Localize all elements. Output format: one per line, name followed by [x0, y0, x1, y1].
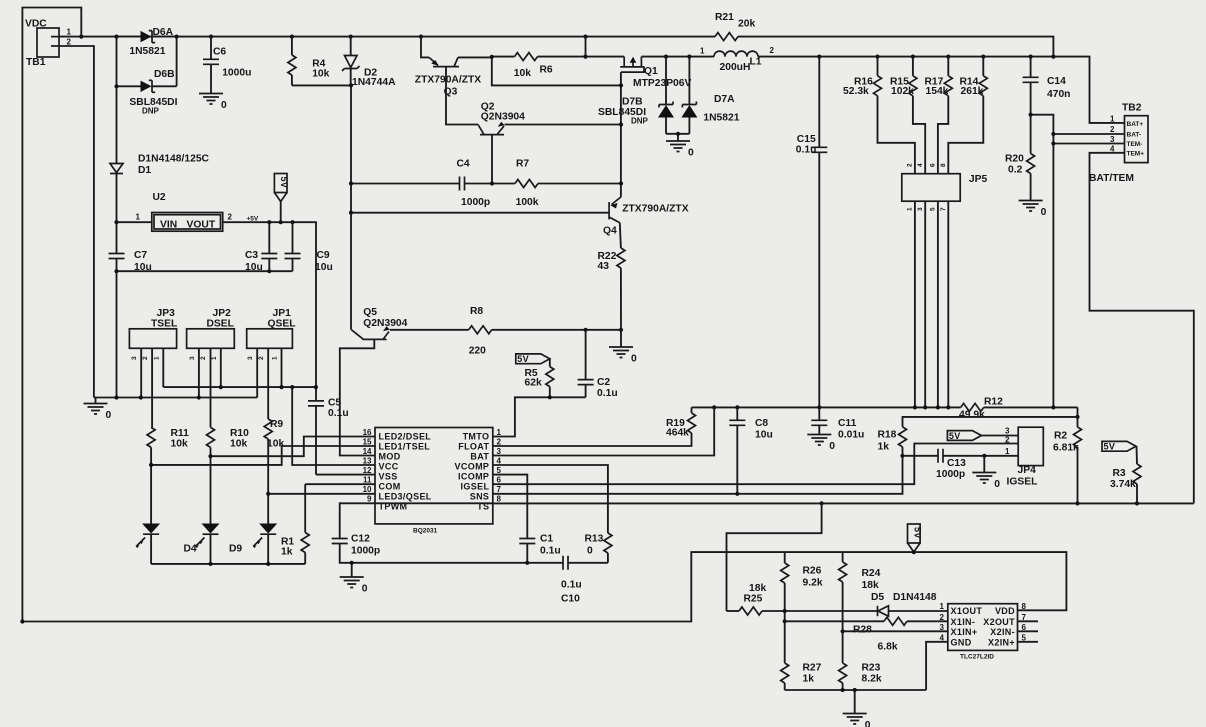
svg-text:4: 4 — [497, 456, 502, 465]
svg-text:200uH: 200uH — [720, 62, 751, 73]
svg-text:R8: R8 — [470, 306, 483, 317]
svg-text:Q2N3904: Q2N3904 — [363, 318, 407, 329]
resistor R26 9.2k — [781, 552, 823, 663]
capacitor C10 0.1u — [527, 556, 608, 605]
svg-text:7: 7 — [497, 485, 502, 494]
svg-text:SNS: SNS — [470, 492, 490, 502]
resistor R16 52.3k — [843, 57, 915, 174]
svg-text:DNP: DNP — [631, 117, 649, 126]
wire VSS pin12 — [316, 474, 375, 476]
svg-text:VIN: VIN — [160, 220, 177, 231]
svg-text:2: 2 — [1005, 436, 1010, 445]
svg-text:D1N4148: D1N4148 — [893, 592, 937, 603]
svg-text:C15: C15 — [797, 134, 816, 145]
power flag 5V (above U2 output) — [274, 174, 289, 223]
svg-text:C10: C10 — [561, 594, 580, 605]
wire D6 anode vertical / node — [116, 37, 118, 163]
capacitor C12 1000p — [332, 503, 528, 563]
wire Q4 base line — [351, 212, 609, 214]
svg-text:+5V: +5V — [247, 216, 259, 223]
svg-text:261k: 261k — [961, 86, 984, 97]
svg-text:VCOMP: VCOMP — [455, 462, 490, 472]
wire COM pin11 line — [305, 483, 375, 485]
svg-text:MOD: MOD — [379, 452, 401, 462]
svg-text:3: 3 — [131, 356, 138, 360]
wire Q3 collector node vertical / gate drive — [492, 57, 621, 85]
svg-text:3: 3 — [1005, 427, 1010, 436]
svg-text:1: 1 — [700, 47, 705, 56]
wire JP3 pins — [141, 348, 163, 427]
wire MOD pin14 to Q5 base — [340, 339, 375, 455]
svg-text:X1IN+: X1IN+ — [951, 627, 978, 637]
svg-text:2: 2 — [940, 613, 945, 622]
zener D2 1N4744A — [342, 37, 396, 88]
svg-text:10k: 10k — [312, 69, 329, 80]
wire bottom ground rail — [785, 689, 926, 691]
ground (op-amp) — [843, 690, 871, 727]
svg-text:VSS: VSS — [379, 472, 398, 482]
power flag 5V (R5) — [516, 354, 550, 364]
resistor R9 10k — [264, 419, 284, 524]
svg-text:1N4744A: 1N4744A — [352, 77, 396, 88]
wire Q2 base to C4/R7 line — [491, 135, 493, 184]
svg-text:1: 1 — [136, 213, 141, 222]
svg-text:D1: D1 — [138, 165, 151, 176]
diode D5 D1N4148 — [762, 592, 948, 616]
svg-text:10u: 10u — [315, 262, 333, 273]
svg-text:IGSEL: IGSEL — [461, 482, 490, 492]
svg-text:2: 2 — [770, 46, 775, 55]
svg-text:C3: C3 — [245, 250, 258, 261]
capacitor C9 10u — [285, 222, 333, 273]
svg-text:TEM-: TEM- — [1127, 141, 1143, 148]
svg-text:C11: C11 — [838, 418, 857, 429]
svg-text:8: 8 — [497, 495, 502, 504]
svg-text:1N5821: 1N5821 — [703, 113, 739, 124]
svg-text:R26: R26 — [803, 566, 822, 577]
svg-text:52.3k: 52.3k — [843, 86, 869, 97]
svg-text:R13: R13 — [585, 534, 604, 545]
op-amp U3 TLC27L2ID — [940, 602, 1027, 661]
resistor R27 1k — [781, 663, 822, 691]
svg-text:C1: C1 — [540, 534, 553, 545]
capacitor C11 0.01u — [811, 407, 864, 440]
power flag 5V (JP4 pin3) — [947, 431, 1018, 441]
svg-text:D6A: D6A — [153, 27, 174, 38]
svg-text:15: 15 — [363, 437, 372, 446]
diode D7A 1N5821 (catch diode) — [681, 57, 739, 134]
svg-text:4: 4 — [1110, 145, 1115, 154]
svg-text:D6B: D6B — [154, 69, 175, 80]
svg-text:62k: 62k — [525, 378, 542, 389]
wire U2 pin1 — [117, 221, 152, 223]
svg-text:C12: C12 — [351, 534, 370, 545]
svg-text:R24: R24 — [862, 568, 881, 579]
svg-text:JP4: JP4 — [1018, 465, 1037, 476]
wire TEM+ from TB2 pin4 down right side — [1090, 153, 1194, 504]
svg-text:2: 2 — [228, 213, 233, 222]
svg-text:1000u: 1000u — [222, 68, 251, 79]
ground (C13) — [972, 456, 1000, 490]
svg-text:1k: 1k — [878, 442, 890, 453]
svg-text:COM: COM — [379, 482, 401, 492]
svg-text:10k: 10k — [267, 439, 284, 450]
wire R9/LED3 node to pin10 — [268, 493, 375, 495]
svg-text:43: 43 — [598, 261, 610, 272]
svg-text:C2: C2 — [597, 377, 610, 388]
svg-text:R12: R12 — [984, 397, 1003, 408]
svg-text:C13: C13 — [947, 458, 966, 469]
svg-text:100k: 100k — [516, 197, 539, 208]
wire LED cathode rail — [151, 563, 305, 565]
svg-text:1: 1 — [1110, 115, 1115, 124]
wire R4 bottom to D2 — [292, 84, 351, 86]
LED D4 — [136, 524, 197, 564]
resistor R13 0 — [493, 465, 612, 563]
svg-text:3: 3 — [940, 623, 945, 632]
wire JP5 bottom pins to BAT rail — [915, 201, 948, 407]
svg-text:X2IN+: X2IN+ — [988, 637, 1015, 647]
svg-text:R3: R3 — [1113, 468, 1126, 479]
svg-text:D7A: D7A — [714, 94, 735, 105]
capacitor C7 10u — [109, 222, 152, 397]
svg-text:1: 1 — [940, 602, 945, 611]
wire switch node rail — [641, 56, 714, 58]
transistor Q5 Q2N3904 (NPN) — [352, 307, 408, 339]
svg-text:12: 12 — [363, 466, 372, 475]
svg-text:R25: R25 — [744, 594, 763, 605]
wire Q1 gate lead down (drive node) — [620, 72, 622, 197]
capacitor C13 1000p — [903, 449, 1019, 480]
svg-text:220: 220 — [469, 346, 486, 357]
svg-text:4: 4 — [940, 634, 945, 643]
svg-text:BQ2031: BQ2031 — [413, 528, 438, 535]
svg-text:C7: C7 — [134, 250, 147, 261]
svg-text:MTP23P06V: MTP23P06V — [633, 78, 692, 89]
svg-text:0.1u: 0.1u — [540, 546, 561, 557]
svg-text:2: 2 — [258, 356, 265, 360]
svg-text:18k: 18k — [862, 580, 879, 591]
svg-text:154k: 154k — [926, 86, 949, 97]
svg-text:18k: 18k — [749, 583, 766, 594]
svg-text:1: 1 — [272, 356, 279, 360]
regulator U2 VIN/VOUT — [136, 192, 233, 231]
svg-text:2: 2 — [907, 163, 914, 167]
connector JP5 — [902, 163, 988, 211]
inductor L1 200uH — [700, 46, 775, 73]
resistor R25 18k — [727, 583, 767, 615]
svg-text:9.2k: 9.2k — [803, 578, 823, 589]
svg-text:3: 3 — [917, 207, 924, 211]
wire Q5 emitter / R8 line — [390, 329, 469, 331]
svg-text:LED3/QSEL: LED3/QSEL — [379, 492, 432, 502]
svg-text:3.74k: 3.74k — [1110, 479, 1136, 490]
ground (jumper rail) — [84, 398, 112, 422]
diode D6B SBL845DI DNP — [117, 69, 178, 116]
svg-text:16: 16 — [363, 428, 372, 437]
ground (R20) — [1019, 201, 1047, 219]
svg-text:R10: R10 — [230, 428, 249, 439]
svg-text:4: 4 — [917, 163, 924, 167]
svg-text:R28: R28 — [853, 625, 872, 636]
svg-text:FLOAT: FLOAT — [458, 442, 489, 452]
svg-text:5: 5 — [930, 207, 937, 211]
resistor R24 18k — [839, 552, 881, 663]
capacitor C4 1000p — [457, 159, 493, 209]
svg-text:6: 6 — [497, 476, 502, 485]
svg-text:14: 14 — [363, 447, 372, 456]
svg-text:8.2k: 8.2k — [862, 674, 882, 685]
svg-text:2: 2 — [200, 356, 207, 360]
resistor R8 220 — [469, 306, 621, 357]
svg-text:D5: D5 — [871, 592, 884, 603]
capacitor C6 1000u — [203, 37, 251, 94]
ground (C12 rail) — [340, 561, 368, 595]
svg-text:1: 1 — [907, 207, 914, 211]
connector TB2 BAT/TEM — [1089, 103, 1148, 185]
svg-text:10k: 10k — [514, 68, 531, 79]
svg-text:BAT/TEM: BAT/TEM — [1089, 173, 1134, 184]
wire opamp pin3 line — [843, 630, 948, 632]
wire VCC drop to pin13 — [292, 387, 375, 465]
svg-text:13: 13 — [363, 456, 372, 465]
svg-text:10k: 10k — [230, 439, 247, 450]
svg-text:464k: 464k — [666, 428, 689, 439]
resistor R15 102k — [890, 57, 925, 174]
svg-text:L1: L1 — [750, 57, 762, 68]
svg-text:10u: 10u — [755, 430, 773, 441]
svg-text:ZTX790A/ZTX: ZTX790A/ZTX — [622, 204, 689, 215]
transistor Q2 Q2N3904 (NPN) — [478, 102, 525, 135]
wire Q3 base down to Q2 — [446, 67, 478, 125]
svg-text:QSEL: QSEL — [268, 319, 296, 330]
resistor R28 6.8k — [785, 617, 948, 652]
svg-text:1: 1 — [1005, 447, 1010, 456]
ground (R8/R22 node) — [609, 330, 637, 365]
svg-text:TB1: TB1 — [26, 57, 46, 68]
IC U1 BQ2031 — [363, 428, 502, 535]
jumper JP2 DSEL — [187, 308, 235, 360]
wire R6 right riser to rail — [585, 37, 587, 57]
transistor Q1 MTP23P06V (P-MOSFET) — [620, 57, 691, 89]
svg-text:C14: C14 — [1047, 76, 1066, 87]
capacitor C14 470n — [1023, 57, 1071, 154]
svg-text:LED2/DSEL: LED2/DSEL — [379, 432, 432, 442]
wire bottom return (left rail to 5V rail) — [22, 552, 1066, 621]
svg-text:1000p: 1000p — [351, 546, 380, 557]
wire jumper ground rail — [94, 397, 257, 399]
diode D7B SBL845DI DNP (catch diode) — [598, 57, 674, 134]
svg-text:1N5821: 1N5821 — [129, 46, 165, 57]
svg-text:2: 2 — [1110, 125, 1115, 134]
svg-text:8: 8 — [940, 163, 947, 167]
resistor R12 49.9k (in BAT rail) — [959, 397, 1078, 421]
svg-text:R20: R20 — [1005, 154, 1024, 165]
svg-text:470n: 470n — [1047, 89, 1070, 100]
svg-text:0.2: 0.2 — [1008, 165, 1023, 176]
resistor R3 3.74k — [1110, 464, 1141, 503]
svg-text:1000p: 1000p — [461, 197, 490, 208]
resistor R21 20k (in top rail) — [715, 12, 755, 41]
svg-text:R7: R7 — [516, 159, 529, 170]
svg-text:20k: 20k — [738, 19, 755, 30]
resistor R11 10k — [147, 427, 189, 523]
svg-text:DNP: DNP — [142, 107, 160, 116]
svg-text:3: 3 — [189, 356, 196, 360]
wire opamp unused stubs — [1018, 621, 1039, 642]
svg-text:11: 11 — [363, 476, 372, 485]
LED D3 (QSEL) — [253, 524, 277, 564]
svg-text:GND: GND — [951, 637, 972, 647]
transistor Q4 ZTX790A/ZTX (PNP) — [603, 197, 689, 248]
svg-text:10k: 10k — [171, 439, 188, 450]
svg-text:6.8k: 6.8k — [878, 642, 898, 653]
svg-text:TMTO: TMTO — [463, 432, 490, 442]
capacitor C3 10u — [245, 222, 277, 273]
svg-text:VCC: VCC — [379, 462, 399, 472]
wire 5V select line (jumper pin1s) — [163, 386, 316, 388]
svg-text:2: 2 — [497, 437, 502, 446]
svg-text:BAT-: BAT- — [1127, 131, 1142, 138]
svg-text:VDD: VDD — [995, 606, 1015, 616]
svg-text:X1IN-: X1IN- — [951, 617, 976, 627]
svg-text:R9: R9 — [270, 419, 283, 430]
svg-text:1: 1 — [211, 356, 218, 360]
resistor R5 62k — [525, 359, 554, 398]
svg-text:IGSEL: IGSEL — [1007, 477, 1038, 488]
svg-text:TEM+: TEM+ — [1127, 151, 1145, 158]
svg-text:TB2: TB2 — [1122, 103, 1142, 114]
svg-text:5: 5 — [497, 466, 502, 475]
svg-text:2: 2 — [142, 356, 149, 360]
svg-text:R27: R27 — [803, 663, 822, 674]
wire IGSEL pin6 to JP4 pin2 — [493, 444, 1018, 485]
svg-text:U2: U2 — [153, 192, 166, 203]
capacitor C2 0.1u — [578, 330, 618, 399]
svg-text:JP5: JP5 — [969, 174, 988, 185]
svg-text:ZTX790A/ZTX: ZTX790A/ZTX — [415, 75, 482, 86]
svg-text:R21: R21 — [715, 12, 734, 23]
wire R10 node to pin16 — [211, 437, 376, 457]
svg-text:R18: R18 — [878, 430, 897, 441]
wire R25 riser from TS rail — [727, 503, 822, 611]
wire TB1 pin2 to ground rail — [59, 46, 94, 398]
svg-text:C6: C6 — [213, 47, 226, 58]
svg-text:D1N4148/125C: D1N4148/125C — [138, 154, 210, 165]
svg-text:R11: R11 — [171, 428, 190, 439]
svg-text:1: 1 — [67, 28, 72, 37]
capacitor C15 0.1u (feedback) — [796, 57, 828, 408]
svg-text:1: 1 — [497, 428, 502, 437]
svg-text:3: 3 — [497, 447, 502, 456]
wire D2 node vertical (to C4 / Q4 base / Q5 collector) — [350, 85, 352, 329]
resistor R10 10k — [207, 427, 250, 523]
svg-text:C9: C9 — [317, 250, 330, 261]
resistor R14 261k — [948, 57, 987, 174]
resistor R1 1k — [281, 484, 309, 564]
svg-text:0: 0 — [587, 546, 593, 557]
svg-text:ICOMP: ICOMP — [458, 472, 489, 482]
jumper JP3 TSEL — [129, 308, 177, 360]
svg-text:1000p: 1000p — [936, 469, 965, 480]
wire BAT- sense from C14/R20 node to TB2 pin2 and down — [1029, 113, 1125, 408]
wire BAT pin3 riser — [493, 407, 714, 455]
svg-text:D9: D9 — [229, 544, 242, 555]
transistor Q3 ZTX790A/ZTX (PNP) — [415, 37, 492, 98]
LED D9 — [196, 524, 243, 564]
wire top rail left of R21 — [59, 36, 715, 38]
svg-text:DSEL: DSEL — [207, 319, 234, 330]
resistor R20 0.2 — [1005, 154, 1035, 201]
svg-text:C4: C4 — [457, 159, 470, 170]
wire +5V output line — [223, 222, 316, 401]
wire C4/R7 line from D2 node — [351, 183, 460, 185]
resistor R2 6.81k — [1053, 407, 1082, 503]
svg-text:3: 3 — [1110, 135, 1115, 144]
svg-text:X2OUT: X2OUT — [983, 617, 1015, 627]
svg-text:1k: 1k — [803, 674, 815, 685]
svg-text:102k: 102k — [891, 86, 914, 97]
node junction dots on top rail — [79, 35, 587, 39]
capacitor C5 0.1u — [308, 398, 349, 475]
svg-text:49.9k: 49.9k — [959, 410, 985, 421]
resistor R22 43 — [598, 248, 625, 330]
svg-text:Q2N3904: Q2N3904 — [481, 112, 525, 123]
svg-text:D4: D4 — [184, 544, 197, 555]
svg-text:1: 1 — [153, 356, 160, 360]
resistor R19 464k — [493, 407, 696, 446]
svg-text:R2: R2 — [1054, 431, 1067, 442]
svg-text:0.01u: 0.01u — [838, 430, 864, 441]
wire top rail right of R21 down to switch rail — [738, 37, 1053, 57]
svg-text:JP2: JP2 — [213, 308, 232, 319]
resistor R17 154k — [925, 57, 953, 174]
svg-text:Q5: Q5 — [363, 307, 377, 318]
svg-text:X2IN-: X2IN- — [990, 627, 1015, 637]
svg-text:6.81k: 6.81k — [1053, 443, 1079, 454]
wire SNS pin7 line — [493, 456, 903, 494]
svg-text:0.1u: 0.1u — [328, 408, 349, 419]
svg-text:3: 3 — [247, 356, 254, 360]
svg-text:LED1/TSEL: LED1/TSEL — [379, 442, 431, 452]
wire Q2 emitter to gate node vertical — [505, 124, 622, 126]
svg-text:0.1u: 0.1u — [597, 388, 618, 399]
svg-text:R6: R6 — [540, 65, 553, 76]
svg-text:TSEL: TSEL — [151, 319, 177, 330]
svg-text:6: 6 — [930, 163, 937, 167]
wire JP2 pins — [199, 348, 221, 427]
svg-text:BAT+: BAT+ — [1127, 121, 1144, 128]
wire output rail after L1 — [758, 57, 1125, 123]
resistor R7 100k — [492, 159, 621, 209]
resistor R6 10k — [492, 53, 624, 79]
wire R18 top line — [903, 417, 1078, 427]
wire D7 anodes join to ground — [666, 133, 689, 135]
resistor R4 10k — [288, 37, 330, 86]
svg-text:TLC27L2ID: TLC27L2ID — [960, 654, 994, 661]
wire R11 node to pin15 — [151, 446, 375, 465]
resistor R23 8.2k — [839, 663, 882, 691]
svg-text:R23: R23 — [862, 663, 881, 674]
wire TB1 outer loop and left rail — [22, 8, 81, 622]
wire bypass cap ground rail — [117, 270, 293, 272]
wire opamp pin4 to ground rail — [926, 642, 948, 690]
wire JP1 pins — [257, 348, 281, 419]
svg-text:D7B: D7B — [622, 97, 643, 108]
resistor R18 1k — [878, 427, 907, 456]
wire TS pin8 rail — [493, 502, 1194, 504]
svg-text:VDC: VDC — [25, 19, 47, 30]
